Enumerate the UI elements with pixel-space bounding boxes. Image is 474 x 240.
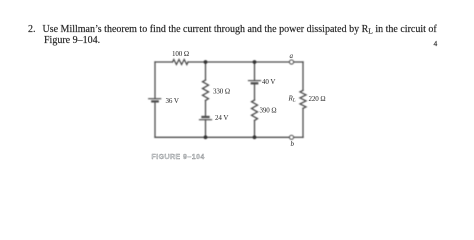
problem text line 2 bbox=[44, 35, 100, 46]
svg-text:330 Ω: 330 Ω bbox=[213, 88, 230, 96]
svg-text:RL: RL bbox=[288, 95, 296, 104]
wire top-left segment bbox=[155, 61, 173, 63]
svg-text:40 V: 40 V bbox=[262, 78, 275, 86]
page number 4 bbox=[434, 40, 438, 48]
wire right branch upper bbox=[302, 62, 304, 90]
wire branch3 lower bbox=[254, 121, 256, 138]
wire top right of node a bbox=[294, 61, 303, 63]
faint cropped caption FIGURE 9-104 bbox=[152, 154, 205, 161]
wire bottom bbox=[155, 136, 289, 138]
node b terminal circle bbox=[289, 135, 293, 139]
wire branch2 lower bbox=[205, 120, 207, 138]
junction dot top branch3 bbox=[253, 60, 257, 64]
resistor 390 ohm bbox=[252, 100, 258, 121]
svg-text:36 V: 36 V bbox=[166, 97, 179, 105]
resistor 330 ohm bbox=[203, 80, 209, 101]
svg-text:100 Ω: 100 Ω bbox=[172, 50, 189, 58]
wire branch3 upper bbox=[254, 62, 256, 80]
svg-text:390 Ω: 390 Ω bbox=[260, 107, 277, 115]
wire branch2 middle bbox=[205, 101, 207, 117]
problem text line 1 bbox=[43, 24, 437, 35]
junction dot top branch2 bbox=[204, 60, 208, 64]
resistor 100 ohm bbox=[173, 60, 189, 65]
resistor RL 220 ohm bbox=[300, 90, 306, 108]
wire branch2 upper bbox=[205, 62, 207, 80]
wire left branch lower bbox=[154, 102, 156, 138]
wire top middle segment bbox=[188, 61, 289, 63]
node a terminal circle bbox=[289, 60, 293, 64]
wire right branch lower bbox=[302, 108, 304, 137]
wire bottom right of node b bbox=[294, 136, 303, 138]
junction dot bottom branch2 bbox=[204, 135, 208, 139]
svg-text:a: a bbox=[290, 52, 294, 60]
svg-text:b: b bbox=[291, 140, 295, 148]
problem number bbox=[28, 24, 36, 35]
battery 36 V bbox=[149, 99, 161, 102]
wire branch3 middle bbox=[254, 83, 256, 100]
junction dot bottom branch3 bbox=[253, 135, 257, 139]
svg-text:24 V: 24 V bbox=[215, 114, 228, 122]
svg-text:220 Ω: 220 Ω bbox=[309, 95, 326, 103]
battery 24 V (reversed) bbox=[200, 117, 212, 120]
battery 40 V bbox=[249, 81, 261, 84]
wire left branch upper bbox=[154, 62, 156, 98]
